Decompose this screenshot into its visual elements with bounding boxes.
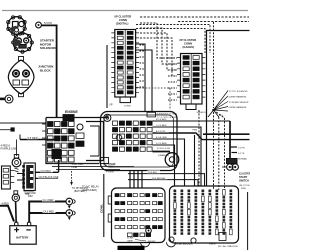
svg-text:5.5 PK: 5.5 PK [44, 21, 52, 25]
relay connector side view [2, 166, 15, 189]
ring terminal on solenoid stud [36, 22, 42, 28]
wire CA 5 BLK [35, 160, 58, 172]
svg-text:0.5 YE: 0.5 YE [238, 153, 245, 155]
svg-text:PURPLE LINE: PURPLE LINE [1, 148, 18, 151]
bulkhead half connector (dark) [22, 163, 35, 191]
ring terminal body ground upper [66, 198, 73, 205]
clip bracket [17, 170, 23, 187]
svg-text:TAB: TAB [25, 193, 30, 196]
svg-text:(DIGITAL): (DIGITAL) [116, 21, 128, 25]
fuse block rear half [170, 186, 239, 243]
svg-text:CONN: CONN [119, 18, 127, 22]
dashed drop right of knot [214, 110, 225, 190]
svg-text:4 WIRE HARNESS: 4 WIRE HARNESS [229, 106, 247, 109]
svg-text:CONN: CONN [124, 106, 131, 108]
battery [10, 226, 36, 245]
note box [118, 246, 145, 250]
wire 5.5 RED [20, 139, 57, 141]
svg-text:SOLENOID: SOLENOID [40, 46, 57, 50]
cowl body line [103, 174, 105, 237]
wire 5.5 PK solenoid to engine [42, 25, 57, 117]
battery cable bolt to positive [15, 202, 18, 223]
ground bolt terminal [0, 98, 5, 101]
ground bolt mid-left [14, 155, 18, 159]
svg-text:4 RED: 4 RED [2, 202, 10, 205]
svg-text:REAR: REAR [209, 243, 216, 246]
wire B feed [153, 120, 231, 122]
starter motor solenoid [7, 16, 34, 54]
wire stub 0.5 YE [232, 152, 238, 154]
svg-text:TO SPEED SENSOR: TO SPEED SENSOR [229, 102, 249, 104]
svg-text:RO # ALL TIME FUSE: RO # ALL TIME FUSE [218, 245, 238, 248]
wire heavy to start switch [229, 121, 231, 158]
wire A feed [153, 133, 250, 140]
wire dashed harness line 2 [178, 21, 249, 23]
svg-text:FUSE BLOCK: FUSE BLOCK [175, 241, 193, 245]
svg-text:I/P CLUSTER: I/P CLUSTER [115, 15, 132, 19]
wire engine bottom leads [48, 163, 98, 165]
svg-text:DOME: DOME [127, 238, 134, 240]
dashed harness nested corner A [140, 23, 177, 58]
svg-text:TAB: TAB [109, 166, 114, 169]
svg-text:C 2.5 RED: C 2.5 RED [156, 125, 167, 127]
wire stub with terminal [0, 129, 11, 131]
dashed drop to bulkhead top [136, 88, 170, 110]
svg-text:CA 3 RED: CA 3 RED [43, 211, 54, 214]
svg-text:FRM: FRM [193, 130, 198, 132]
svg-text:LAMP: LAMP [127, 239, 133, 242]
svg-text:I/P: I/P [110, 104, 113, 107]
svg-text:SPEEDO: SPEEDO [197, 112, 206, 114]
svg-text:SIDE: SIDE [241, 188, 246, 190]
svg-text:CA 5 BLK: CA 5 BLK [41, 170, 52, 173]
svg-text:BATTERY: BATTERY [16, 235, 29, 239]
wire D feed [153, 145, 175, 186]
svg-text:COWL: COWL [100, 204, 104, 213]
wire E feed [153, 139, 185, 186]
svg-text:LINE: LINE [72, 166, 78, 169]
svg-text:4 WIRE HARNESS: 4 WIRE HARNESS [229, 95, 247, 98]
dashed stubs into gages conn [168, 58, 177, 100]
dashed drops below knot [213, 112, 215, 190]
wire heavy across right [203, 133, 250, 135]
wire digital pin to bulkhead right [136, 50, 152, 111]
svg-text:BLOCK: BLOCK [40, 68, 51, 72]
svg-text:2.5 PN: 2.5 PN [238, 148, 245, 150]
dashed harness nested corner B [140, 28, 177, 64]
junction block [8, 57, 34, 97]
wire dashed harness line 1 [140, 16, 249, 18]
panel box right [207, 31, 250, 187]
svg-text:I/P CLUSTER: I/P CLUSTER [180, 38, 197, 42]
wire top horizontal bus [2, 10, 248, 12]
ground bolt above battery [14, 191, 18, 194]
svg-text:5.5 RED: 5.5 RED [28, 136, 38, 140]
bulkhead connector [101, 112, 179, 171]
border segment right [247, 192, 249, 250]
wire digital pin to bulkhead left [136, 44, 145, 111]
svg-text:CA 1 RED: CA 1 RED [43, 199, 54, 202]
wire C feed [153, 127, 202, 186]
svg-text:ON CYCLE: ON CYCLE [239, 185, 250, 187]
svg-text:TO TCC SOLENOID: TO TCC SOLENOID [229, 91, 248, 93]
wire drop to bulkhead [106, 45, 108, 108]
svg-text:FRONT: FRONT [148, 241, 156, 243]
cluster start switch connector [227, 159, 238, 164]
svg-text:(BATTERY): (BATTERY) [74, 190, 87, 193]
battery cable 4 RED to left [0, 206, 14, 222]
svg-text:A 2.5 PPL: A 2.5 PPL [156, 130, 167, 133]
svg-text:TO 4X LX GN: TO 4X LX GN [157, 148, 171, 150]
svg-text:CONN: CONN [184, 41, 192, 45]
svg-text:20.4 BROWN: 20.4 BROWN [152, 178, 166, 180]
battery cable CA 3 RED lower [29, 212, 66, 214]
svg-text:CONDUIT: CONDUIT [106, 164, 117, 166]
dashed harness nested corner D [140, 38, 177, 76]
svg-text:D 2.5 BRN: D 2.5 BRN [156, 143, 167, 145]
dashed drop from gages connector [198, 110, 200, 186]
wire drop to ground bolt [16, 140, 18, 157]
svg-text:ENGINE: ENGINE [65, 110, 78, 114]
wire drops bulkhead to fuse block [130, 171, 142, 189]
wire 20.5 BLK [128, 174, 205, 186]
dashed harness digital to gages upper [136, 25, 210, 54]
svg-text:E 0.8 ORN: E 0.8 ORN [156, 137, 167, 139]
svg-text:(GAGES): (GAGES) [183, 45, 195, 49]
dashed stubs off digital conn [140, 45, 146, 87]
wire CD 8 BLACK [35, 177, 58, 179]
wire alternator feed [0, 122, 46, 124]
svg-text:20.5 BLK: 20.5 BLK [148, 172, 158, 174]
svg-text:GROUND: GROUND [24, 191, 35, 193]
fuse block front half [108, 188, 176, 247]
dashed harness digital to gages lower [136, 29, 205, 54]
svg-text:CD 8 BLACK LINE: CD 8 BLACK LINE [39, 176, 59, 179]
dashed lead to A/C relay [71, 171, 73, 182]
harness knot [208, 91, 228, 118]
svg-text:B 2.5 RED: B 2.5 RED [156, 119, 167, 121]
ring terminal body ground lower [66, 210, 73, 217]
wire heavy orange [153, 151, 171, 153]
battery cable CA 1 RED upper [29, 202, 66, 223]
dashed harness nested corner C [140, 33, 177, 70]
svg-text:(ORANGE): (ORANGE) [158, 154, 169, 157]
svg-text:SWITCH: SWITCH [239, 179, 249, 182]
wire 20.4 BROWN [128, 180, 198, 186]
svg-text:NORMAL: NORMAL [238, 158, 248, 161]
dashed trunk above knot [213, 22, 215, 108]
wire stub 2.5 PN [230, 146, 237, 148]
